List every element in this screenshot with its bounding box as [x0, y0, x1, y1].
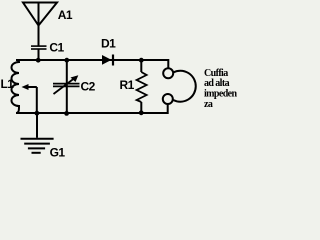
- svg-text:C2: C2: [81, 80, 96, 94]
- svg-text:A1: A1: [58, 8, 73, 22]
- svg-text:R1: R1: [120, 78, 135, 92]
- svg-text:L1: L1: [1, 77, 15, 91]
- svg-text:G1: G1: [50, 145, 66, 159]
- svg-text:D1: D1: [101, 37, 116, 51]
- svg-text:za: za: [204, 99, 213, 110]
- svg-text:C1: C1: [49, 41, 64, 55]
